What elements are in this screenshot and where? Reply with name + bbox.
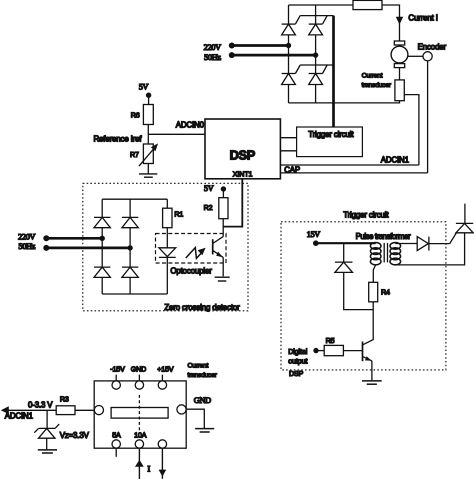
svg-text:R5: R5	[326, 337, 335, 345]
wire ADCIN1 line	[280, 164, 419, 166]
svg-text:CAP: CAP	[284, 166, 300, 175]
resistor R2	[219, 198, 228, 219]
terminal +15V	[158, 381, 166, 389]
terminal -15V	[112, 381, 120, 389]
terminal GND	[135, 381, 143, 389]
svg-text:-15V: -15V	[110, 365, 125, 373]
wire R6 to R7	[147, 125, 149, 145]
resistor R3	[56, 406, 75, 415]
node mains terminal 2	[229, 52, 235, 58]
resistor R5	[324, 345, 343, 355]
diode D2	[122, 217, 138, 227]
diode D1	[94, 217, 110, 227]
wire supply stubs	[116, 375, 162, 381]
wire emitter to ground	[371, 361, 373, 381]
terminal 10A	[135, 440, 143, 448]
wire current in arrow	[138, 448, 140, 479]
terminal out	[158, 440, 166, 448]
svg-text:5V: 5V	[139, 82, 149, 91]
current transducer (inline)	[395, 80, 404, 101]
svg-text:0-3.3 V: 0-3.3 V	[28, 401, 53, 410]
zener diode Vz	[34, 424, 59, 433]
svg-text:5V: 5V	[204, 184, 214, 193]
wire LED to bottom rail	[166, 257, 168, 294]
ground opto	[215, 276, 230, 278]
wire mains phase zcd	[46, 237, 102, 240]
motor M body	[391, 46, 408, 63]
wire emitter to ground	[222, 257, 224, 276]
wire DSP to trigger 2	[280, 150, 296, 152]
pulse transformer primary	[370, 243, 381, 250]
diode output	[417, 237, 428, 251]
resistor R7 (variable)	[143, 144, 153, 164]
optocoupler dashed box	[156, 234, 227, 264]
wire secondary to output diode	[395, 243, 417, 245]
encoder	[423, 52, 432, 61]
thyristor T3	[282, 74, 296, 85]
wire DSP to trigger 1	[280, 137, 296, 139]
motor M brush bottom	[394, 64, 404, 68]
wire thyristor cathode return	[395, 233, 464, 265]
trigger circuit box	[297, 127, 363, 157]
wire R4 to transistor	[363, 302, 374, 345]
svg-text:transducer: transducer	[188, 372, 218, 379]
transistor Q1	[362, 342, 364, 362]
svg-text:R4: R4	[381, 288, 390, 296]
svg-text:15V: 15V	[307, 230, 321, 239]
dashed center line	[138, 395, 140, 431]
svg-text:ADCIN0: ADCIN0	[176, 120, 205, 129]
phototransistor Q	[212, 239, 214, 254]
terminal output right	[177, 405, 186, 414]
wire primary to R4	[373, 265, 375, 283]
ground R7	[139, 173, 157, 175]
ground transducer	[195, 428, 214, 430]
node AC2	[313, 52, 318, 57]
ground transistor	[362, 380, 382, 382]
wire thyristor anode stub	[464, 204, 466, 224]
diode D4	[122, 267, 138, 277]
pulse transformer core	[384, 243, 387, 263]
wire XINT1	[223, 179, 242, 227]
svg-text:Digital: Digital	[288, 348, 308, 356]
wire freewheel return	[344, 272, 373, 309]
node mains terminal 1	[229, 43, 235, 49]
wire zcd bridge top rail	[102, 198, 167, 200]
op-amp DSP box	[205, 119, 280, 179]
svg-text:R1: R1	[174, 211, 183, 219]
wire collector to R2	[222, 219, 224, 237]
svg-text:Current: Current	[362, 73, 383, 80]
wire 15V rail	[316, 242, 376, 244]
wire digital output to R5	[316, 350, 324, 352]
wire R7 to ground	[147, 164, 149, 174]
light arrows	[186, 248, 202, 259]
svg-text:GND: GND	[131, 365, 146, 373]
svg-text:220V: 220V	[204, 43, 222, 52]
wire ADCIN1 output	[7, 409, 56, 411]
wire DC- bottom rail	[289, 101, 400, 103]
svg-text:output: output	[288, 358, 307, 366]
wire R5 to base	[343, 350, 362, 352]
wire mains neutral zcd	[46, 247, 130, 250]
svg-text:transducer: transducer	[362, 82, 392, 89]
node AC1	[286, 43, 291, 48]
pulse transformer secondary	[390, 243, 401, 250]
wire bridge middle column	[315, 5, 317, 103]
wire encoder to CAP	[427, 61, 429, 173]
wire gate bus bottom	[300, 64, 333, 66]
svg-text:Current I: Current I	[408, 13, 437, 22]
wire motor to transducer	[399, 68, 401, 80]
thyristor T1	[282, 24, 296, 35]
wire top DC+ rail	[289, 4, 354, 6]
LED opto	[159, 248, 176, 257]
svg-text:I: I	[147, 463, 150, 473]
svg-text:R7: R7	[130, 151, 139, 159]
wire mains phase top	[232, 44, 289, 47]
load box L	[353, 0, 382, 9]
wire ADCIN0	[148, 133, 205, 135]
wire right terminal to ground	[186, 409, 204, 428]
wire zener to ground	[46, 438, 48, 450]
svg-text:Pulse transformer: Pulse transformer	[356, 232, 411, 241]
wire CAP line	[280, 172, 427, 174]
svg-text:220V: 220V	[18, 233, 36, 242]
svg-text:10A: 10A	[134, 432, 147, 440]
svg-text:DSP: DSP	[230, 147, 256, 162]
svg-text:Encoder: Encoder	[418, 43, 447, 52]
wire rail to R1	[166, 199, 168, 208]
current transducer box	[94, 381, 186, 448]
wire gate diagonal	[450, 233, 457, 244]
ground zener	[38, 449, 57, 451]
svg-text:5A: 5A	[112, 432, 121, 440]
terminal 5A	[112, 440, 120, 448]
diode D3	[94, 267, 110, 277]
thyristor output	[456, 222, 473, 224]
zero crossing detector dashed box	[83, 183, 248, 310]
node 5V	[146, 93, 151, 98]
node 5V R2	[221, 186, 226, 191]
svg-text:ADCIN1: ADCIN1	[381, 155, 409, 164]
thyristor T4	[309, 74, 323, 85]
wire zcd left column	[101, 199, 103, 294]
wire 5V to R6	[148, 95, 150, 104]
svg-text:ADCIN1: ADCIN1	[5, 411, 33, 420]
svg-text:Vz=3.3V: Vz=3.3V	[60, 431, 90, 440]
thyristor T2	[309, 24, 323, 35]
svg-text:DSP: DSP	[289, 370, 304, 378]
svg-text:XINT1: XINT1	[233, 171, 253, 179]
svg-text:R2: R2	[204, 204, 213, 212]
wire 15V to freewheel diode	[343, 243, 345, 262]
wire zcd right column	[129, 199, 131, 294]
node digital output	[313, 348, 318, 353]
wire R1 to LED	[166, 228, 168, 248]
node zcd terminal 2	[43, 245, 49, 251]
wire zcd bridge bottom rail	[102, 293, 167, 295]
current direction arrow	[396, 17, 403, 25]
wire load box to corner	[382, 5, 400, 41]
resistor R6	[143, 105, 153, 125]
svg-text:R3: R3	[60, 395, 69, 403]
svg-text:50Hz: 50Hz	[204, 53, 221, 62]
wire motor to encoder	[408, 55, 423, 57]
wire transducer tap to ADCIN1	[404, 95, 419, 165]
wire mains neutral top	[232, 54, 316, 57]
svg-text:+15V: +15V	[157, 365, 174, 373]
wire bridge left column	[288, 5, 290, 103]
wire 5V to R2	[222, 189, 224, 198]
svg-text:Optocoupler: Optocoupler	[170, 267, 212, 276]
wire diode to gate	[429, 243, 450, 245]
slot	[111, 408, 168, 419]
diode freewheel	[335, 261, 353, 263]
svg-text:R6: R6	[131, 112, 140, 120]
trigger circuit dashed box	[281, 222, 446, 370]
svg-text:Trigger circuit: Trigger circuit	[308, 130, 354, 139]
wire junction to zener	[46, 410, 48, 428]
wire 5A stub	[115, 448, 117, 457]
svg-text:GND: GND	[194, 396, 211, 405]
resistor R1	[163, 208, 172, 228]
svg-text:Trigger circuit: Trigger circuit	[343, 210, 389, 219]
svg-text:50Hz: 50Hz	[18, 242, 35, 251]
node 15V	[313, 240, 319, 246]
wire current out arrow	[161, 448, 163, 479]
wire gate bus to trigger circuit	[332, 16, 335, 127]
resistor R4	[369, 282, 378, 302]
wire R3 to transducer	[75, 409, 94, 411]
node zcd AC2	[127, 245, 132, 250]
node zcd AC1	[100, 236, 105, 241]
terminal output left	[94, 406, 103, 415]
svg-text:Current: Current	[188, 363, 209, 370]
motor M brush top	[394, 41, 404, 45]
node zcd terminal 1	[43, 235, 49, 241]
svg-text:Zero crossing detector: Zero crossing detector	[164, 303, 240, 312]
wire gate bus top	[300, 15, 333, 17]
svg-text:Reference Iref: Reference Iref	[94, 134, 143, 143]
